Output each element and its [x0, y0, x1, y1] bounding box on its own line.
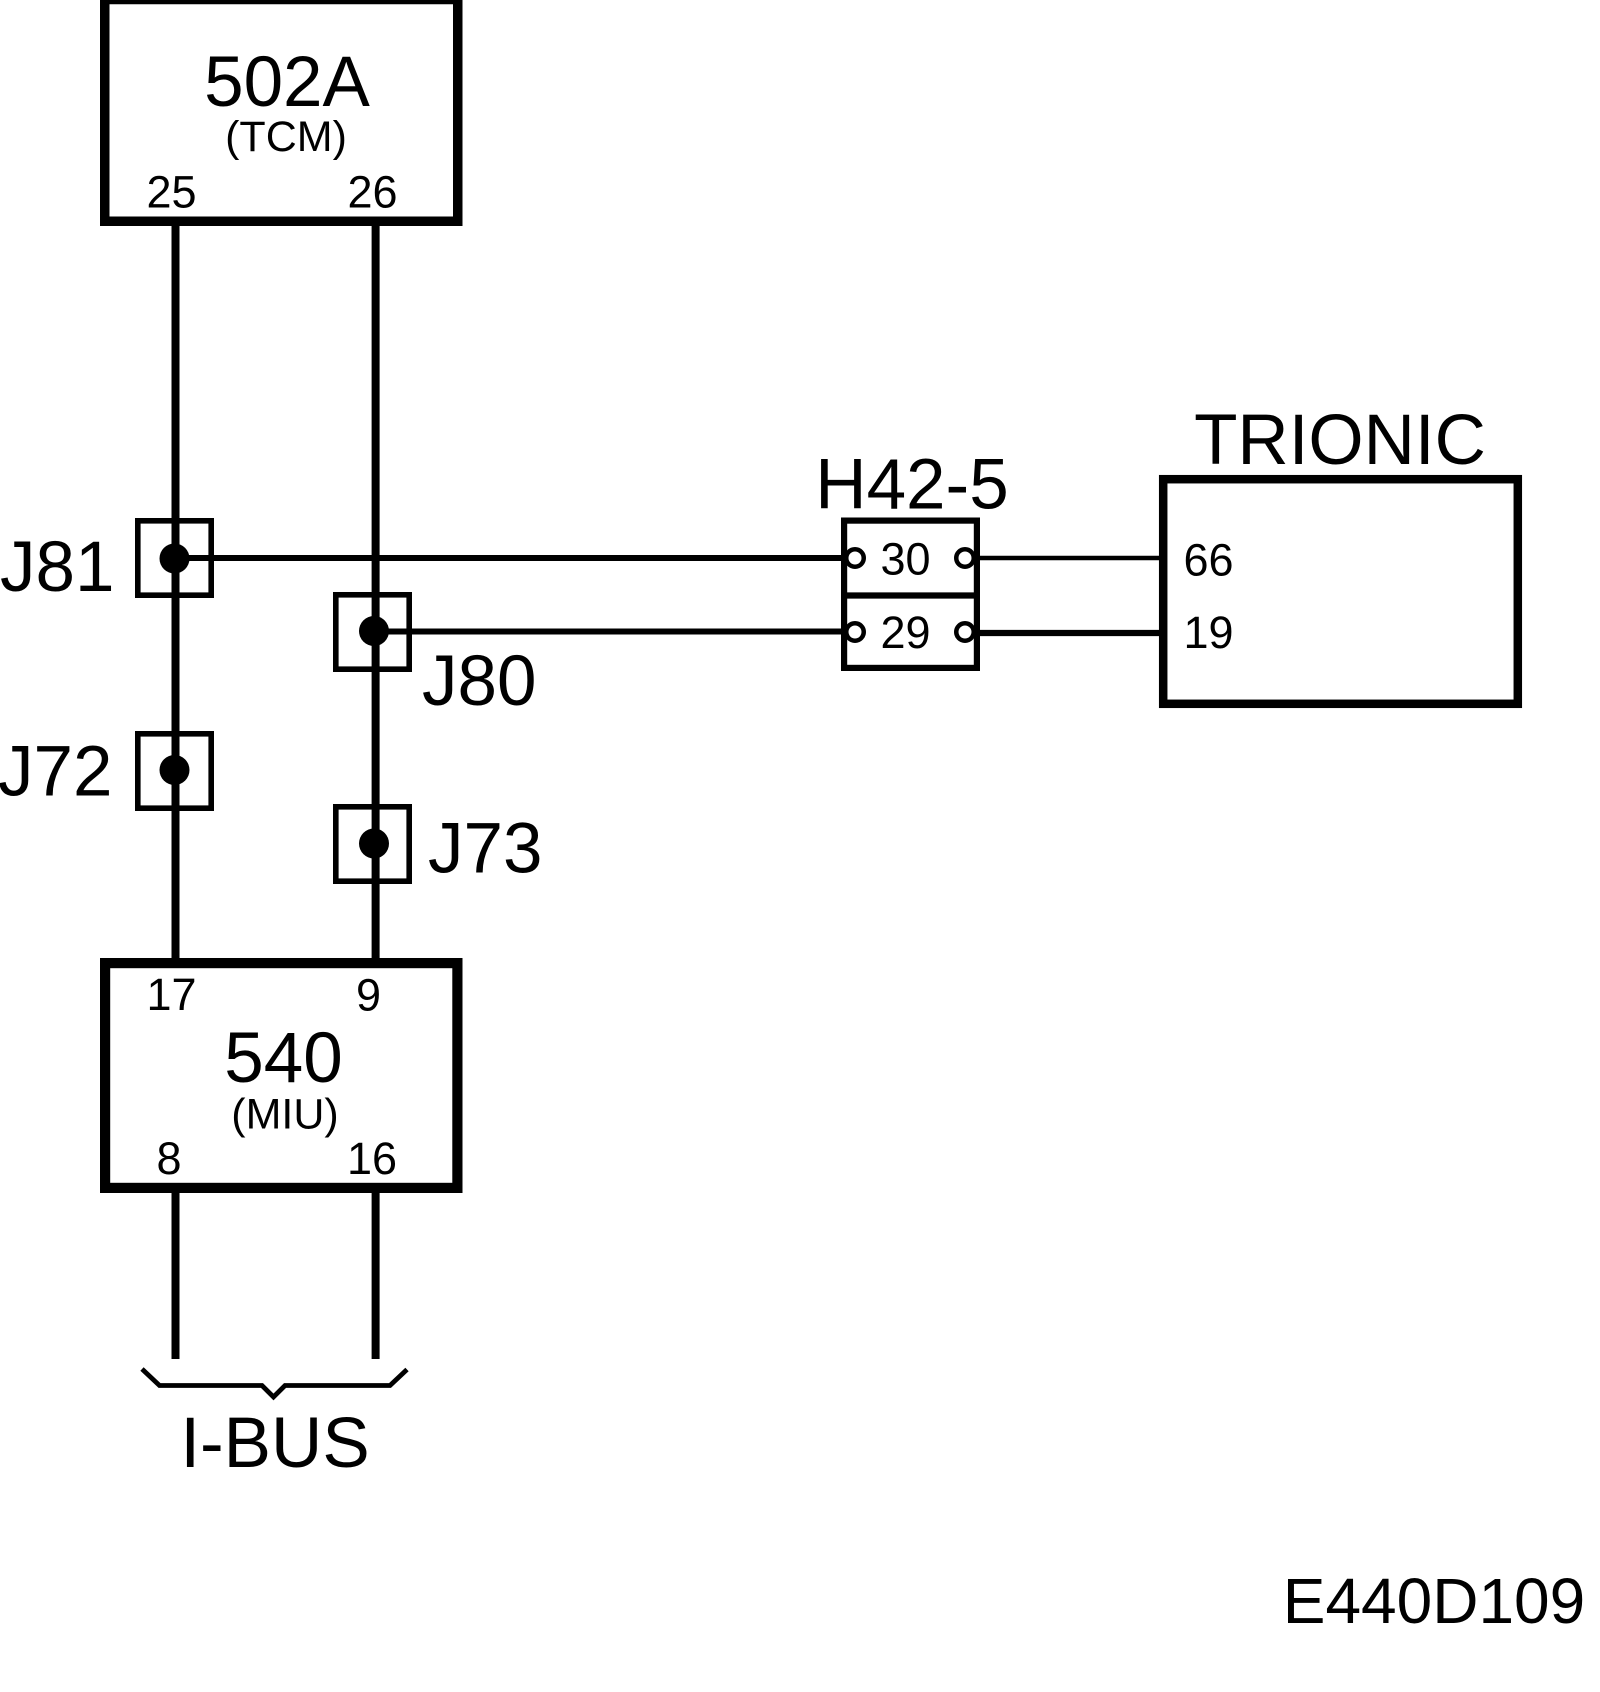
- svg-text:9: 9: [356, 970, 381, 1021]
- wire pin16 to I-BUS: [372, 1188, 380, 1359]
- wire pin25 to pin17 (left vertical): [172, 221, 180, 963]
- H42-5 pin30 right terminal circle: [956, 549, 974, 567]
- svg-text:502A: 502A: [204, 43, 370, 122]
- wire J81 to H42-5 pin30: [175, 555, 857, 561]
- svg-text:25: 25: [146, 167, 196, 218]
- box 502A (TCM): [105, 0, 458, 221]
- svg-text:540: 540: [224, 1019, 342, 1098]
- junction J80 dot: [359, 616, 389, 646]
- svg-text:J73: J73: [428, 810, 542, 889]
- svg-text:J80: J80: [422, 642, 536, 721]
- svg-text:TRIONIC: TRIONIC: [1194, 401, 1486, 480]
- H42-5 pin30 left terminal circle: [846, 549, 864, 567]
- junction J80 box: [336, 595, 409, 669]
- svg-text:H42-5: H42-5: [815, 446, 1008, 525]
- wire pin26 to pin9 (right vertical): [372, 221, 380, 963]
- wire J80 to H42-5 pin29: [374, 629, 856, 635]
- svg-text:66: 66: [1184, 535, 1234, 586]
- junction J81 dot: [160, 544, 190, 574]
- junction J72 dot: [160, 755, 190, 785]
- junction J81 box: [138, 521, 211, 595]
- wire H42-5 pin30 to TRIONIC pin66: [964, 556, 1164, 561]
- svg-text:I-BUS: I-BUS: [180, 1404, 369, 1483]
- H42-5 pin29 left terminal circle: [846, 623, 864, 641]
- junction J73 box: [336, 807, 409, 881]
- svg-text:(TCM): (TCM): [225, 113, 347, 161]
- svg-text:30: 30: [880, 534, 930, 585]
- svg-text:E440D109: E440D109: [1283, 1565, 1585, 1637]
- junction J72 box: [138, 734, 211, 808]
- connector H42-5 divider: [841, 592, 980, 598]
- svg-text:26: 26: [347, 167, 397, 218]
- wire pin8 to I-BUS: [172, 1188, 180, 1359]
- svg-text:16: 16: [347, 1133, 397, 1184]
- svg-text:8: 8: [156, 1133, 181, 1184]
- svg-text:(MIU): (MIU): [231, 1091, 338, 1139]
- junction J73 dot: [359, 829, 389, 859]
- svg-text:17: 17: [146, 969, 196, 1020]
- box 540 (MIU): [105, 963, 457, 1188]
- svg-text:29: 29: [880, 607, 930, 658]
- svg-text:J72: J72: [0, 733, 112, 812]
- H42-5 pin29 right terminal circle: [956, 623, 974, 641]
- I-BUS brace: [142, 1369, 407, 1397]
- connector H42-5 box: [844, 521, 977, 668]
- wire H42-5 pin29 to TRIONIC pin19: [964, 630, 1164, 636]
- svg-text:19: 19: [1184, 607, 1234, 658]
- box TRIONIC: [1163, 479, 1518, 704]
- svg-text:J81: J81: [0, 528, 114, 607]
